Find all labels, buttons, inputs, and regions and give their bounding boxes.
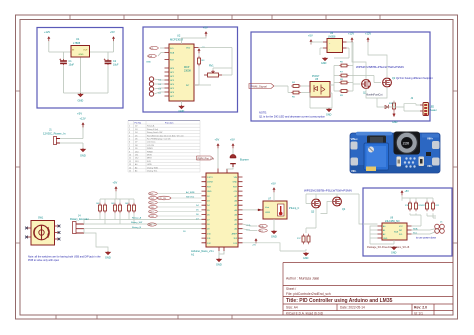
svg-text:GND: GND	[78, 99, 84, 103]
rotary encoder right pins with no-connect	[55, 226, 60, 239]
svg-text:LCD_RS: LCD_RS	[158, 198, 167, 200]
svg-text:Package_SO-PowerIntegrations_S: Package_SO-PowerIntegrations_SO-c8	[367, 246, 410, 249]
power flag +5V left of U6	[310, 39, 313, 44]
frame row ticks left	[16, 91, 21, 243]
svg-text:5: 5	[129, 139, 130, 141]
wire bus right of resistors	[349, 66, 381, 92]
resistor R19	[409, 201, 412, 211]
module trim pot	[364, 143, 389, 170]
svg-text:+5V: +5V	[271, 182, 276, 186]
resistor R16	[133, 203, 136, 213]
svg-text:Rotary_A: Rotary_A	[132, 217, 142, 220]
svg-text:D11: D11	[135, 155, 138, 157]
svg-text:Buzzer: Buzzer	[240, 158, 249, 162]
svg-text:Rotary_SW: Rotary_SW	[131, 221, 143, 224]
wires pot to rails	[213, 68, 232, 75]
wire opto emitter to gnd	[310, 93, 332, 109]
wire LM35 to gnd	[273, 219, 275, 230]
svg-text:GND: GND	[179, 109, 185, 113]
svg-text:VIN: VIN	[234, 177, 238, 179]
wire VDD right	[199, 47, 223, 49]
capacitor C2	[104, 59, 112, 66]
resistor R22	[432, 201, 435, 211]
IC U2 left pins	[165, 48, 170, 96]
svg-text:GND: GND	[79, 54, 84, 56]
svg-text:GND: GND	[105, 256, 111, 260]
svg-text:+5V: +5V	[230, 138, 235, 142]
mosfet Q4	[333, 197, 342, 206]
wire rotary data line SW	[84, 223, 202, 225]
svg-text:Sheet /: Sheet /	[286, 287, 296, 291]
svg-text:Id: 1/1: Id: 1/1	[414, 311, 423, 315]
optocoupler U5	[310, 75, 330, 97]
svg-text:D5: D5	[135, 135, 137, 137]
svg-text:D8: D8	[135, 145, 137, 147]
ground under U6	[323, 57, 328, 61]
mosfet Q1	[362, 80, 371, 89]
potentiometer RV1 contrast	[204, 70, 222, 77]
svg-text:D0/RX: D0/RX	[207, 182, 214, 184]
resistor R18	[307, 234, 310, 244]
module pad VIN+	[351, 142, 358, 150]
svg-text:D1/TX: D1/TX	[207, 177, 213, 179]
svg-text:GND: GND	[216, 263, 222, 267]
svg-text:7: 7	[129, 145, 130, 147]
svg-text:L7805: L7805	[73, 41, 81, 45]
svg-text:+5V: +5V	[203, 26, 208, 30]
wire buzzer to MCU	[227, 167, 233, 169]
svg-text:SW1: SW1	[38, 217, 44, 220]
svg-text:LCDR: LCDR	[149, 216, 155, 218]
svg-text:LM358: LM358	[328, 36, 336, 39]
svg-text:VCC: VCC	[399, 226, 404, 228]
svg-text:Q2 For having different footp: Q2 For having different footprint	[396, 76, 433, 80]
wire rotary data line A	[84, 219, 202, 221]
svg-text:GND: GND	[392, 121, 398, 124]
capacitor C1	[59, 59, 67, 66]
buzzer BZ1	[230, 155, 236, 167]
wire MCU bottom to gnd	[219, 251, 224, 258]
svg-text:1: 1	[129, 126, 130, 128]
svg-text:MISO: MISO	[147, 158, 152, 160]
resistor R3 pullup	[198, 56, 201, 66]
svg-text:13: 13	[129, 164, 131, 166]
net label SDA (box2)	[148, 54, 157, 57]
svg-text:AREF: AREF	[232, 232, 238, 235]
wires mosfet drains rail	[306, 194, 359, 233]
resistor R14	[119, 203, 122, 213]
LM35 temperature sensor U7	[263, 201, 287, 219]
svg-text:Fan PWM/Display / LCD D6: Fan PWM/Display / LCD D6	[147, 139, 170, 141]
svg-text:WPS2N/2SB7B+PSLLW7SW+PSMN: WPS2N/2SB7B+PSLLW7SW+PSMN	[304, 189, 352, 193]
svg-text:6: 6	[129, 142, 130, 144]
ground at power-in	[81, 148, 86, 152]
wires MCU to SDA/SCL labels	[243, 224, 258, 231]
power flag +5V above MCU left	[217, 143, 220, 148]
svg-text:GND: GND	[303, 257, 309, 260]
net label oval on SW line	[148, 223, 157, 227]
resistor R11	[99, 203, 102, 213]
svg-text:+5V: +5V	[113, 181, 118, 185]
MCU left pins	[202, 177, 207, 243]
svg-text:15: 15	[129, 171, 131, 173]
wire MCU A0 to LM35	[243, 209, 259, 211]
wires to J2	[384, 101, 420, 111]
svg-text:VIN+/-: VIN+/-	[351, 137, 359, 141]
svg-text:D4: D4	[135, 132, 137, 134]
svg-text:Rotary_Encoder: Rotary_Encoder	[70, 217, 89, 221]
svg-text:12: 12	[129, 161, 131, 163]
ground under mosfet resistors	[304, 252, 309, 256]
resistor R20	[415, 201, 418, 211]
wire mid rail to box4	[359, 194, 363, 224]
wire SCL to pin	[160, 47, 165, 49]
resistor R10 vertical	[393, 101, 396, 111]
svg-text:LCD4: LCD4	[149, 198, 155, 200]
IC U2 pin name texts	[170, 48, 191, 99]
svg-text:Rev: 2.0: Rev: 2.0	[414, 306, 427, 310]
wires net labels to MCU	[157, 194, 201, 217]
ground under LM35	[272, 230, 277, 234]
wire from mosfet area to MCU D13	[243, 243, 307, 251]
wire bus left of resistors	[330, 66, 339, 92]
wires U9 left to gnd bus	[363, 224, 394, 244]
ground GND box2	[179, 105, 184, 109]
svg-text:A2: A2	[383, 233, 385, 236]
svg-text:Heater: Heater	[430, 109, 437, 112]
sheet box: power supply regulator section	[37, 28, 123, 109]
svg-text:PWM2: PWM2	[147, 151, 153, 153]
svg-text:PWM_Rist_Out: PWM_Rist_Out	[198, 157, 215, 160]
svg-text:+5V: +5V	[308, 34, 313, 38]
power flag +12V above Q1	[351, 37, 354, 42]
power flag +5V small below	[255, 238, 258, 243]
svg-text:+12V: +12V	[80, 117, 86, 121]
svg-text:SCL: SCL	[399, 234, 403, 236]
power flag +5V above LM35	[273, 187, 276, 192]
resistor R21	[426, 201, 429, 211]
svg-text:Author : Murtaza Jalal: Author : Murtaza Jalal	[286, 277, 319, 281]
frame column ticks bottom	[56, 315, 232, 319]
svg-text:A1: A1	[383, 229, 385, 232]
svg-text:A1: A1	[191, 253, 195, 257]
svg-text:GND: GND	[321, 62, 327, 65]
svg-text:SW: SW	[149, 225, 152, 227]
svg-text:LED1: LED1	[149, 194, 155, 196]
diode D1	[385, 105, 389, 109]
svg-text:220: 220	[403, 141, 410, 146]
svg-text:MOSI: MOSI	[147, 155, 152, 157]
svg-text:PWM1: PWM1	[147, 148, 153, 150]
svg-text:U2: U2	[177, 34, 181, 38]
svg-text:D12: D12	[135, 158, 138, 160]
svg-text:KiCad E.D.A. kicad (6.0.6): KiCad E.D.A. kicad (6.0.6)	[286, 311, 323, 315]
svg-text:Display SDA: Display SDA	[147, 166, 158, 169]
wire rotary data line B	[84, 228, 202, 230]
resistor R13	[114, 203, 117, 213]
svg-text:D3: D3	[135, 129, 137, 131]
module smd resistors	[397, 157, 402, 167]
svg-text:D9: D9	[135, 148, 137, 150]
svg-text:24LC256_SO: 24LC256_SO	[385, 220, 400, 223]
svg-text:10: 10	[129, 155, 131, 157]
svg-text:+12V: +12V	[365, 32, 371, 36]
net label D9	[149, 210, 158, 214]
wire U2 VDD to +5V	[182, 36, 207, 44]
module pad VOUT+	[432, 141, 440, 149]
resistor R7	[339, 74, 349, 77]
svg-text:14: 14	[129, 167, 131, 169]
sheet box: PWM driver / mosfet section	[251, 32, 430, 121]
wire R3 down and to contrast pot	[194, 48, 232, 86]
sheet box: LCD I2C expander section	[143, 27, 238, 112]
svg-text:SW_Rist: SW_Rist	[186, 195, 195, 198]
IC U9 eeprom	[382, 223, 407, 240]
power flag +5V box4	[401, 190, 404, 195]
wires J3 to U2 pins	[154, 79, 165, 94]
regulator U1 L7805	[71, 46, 90, 58]
svg-text:OUT: OUT	[83, 50, 88, 52]
module input connector black	[367, 136, 386, 145]
pin function table	[128, 121, 200, 173]
svg-text:Pin No: Pin No	[135, 122, 142, 124]
module inductor ring	[399, 135, 415, 151]
svg-text:LM35: LM35	[265, 212, 271, 214]
svg-text:D6: D6	[135, 139, 137, 141]
resistor R5	[291, 91, 301, 94]
svg-text:LCD6: LCD6	[149, 207, 155, 209]
svg-text:#Temp_C: #Temp_C	[289, 207, 300, 210]
svg-text:D7: D7	[135, 142, 137, 144]
ground U9	[392, 246, 397, 250]
svg-text:2: 2	[129, 129, 130, 131]
svg-text:GND: GND	[271, 235, 277, 239]
svg-text:PCB to solve only with open: PCB to solve only with open	[28, 259, 60, 262]
svg-text:Rotary B (int): Rotary B (int)	[147, 128, 159, 131]
svg-text:11: 11	[129, 158, 131, 160]
svg-text:SDA: SDA	[413, 228, 418, 231]
resistor R9	[339, 90, 349, 93]
power flag +5V above pullup resistors	[115, 186, 118, 191]
svg-text:GND: GND	[233, 182, 238, 184]
resistor R8	[339, 81, 349, 84]
svg-text:+5V: +5V	[110, 30, 115, 34]
svg-text:SDA: SDA	[148, 55, 153, 58]
net label D8	[149, 205, 158, 209]
rotary encoder left pins with no-connect	[27, 228, 32, 237]
wire to gnd left area	[84, 233, 108, 251]
sheet box: I2C EEPROM section	[363, 188, 452, 256]
wire vcc down to MCU top	[218, 148, 233, 168]
svg-text:LCD Data: LCD Data	[147, 141, 156, 144]
wire U6 right feedback	[334, 42, 353, 66]
IC U2 MCP23008	[169, 44, 194, 101]
title block outline	[283, 263, 453, 316]
svg-text:VDD: VDD	[186, 48, 191, 50]
svg-text:WPS2N/2SB7B+PSLLW7SW+PSMN: WPS2N/2SB7B+PSLLW7SW+PSMN	[356, 65, 404, 69]
svg-text:9: 9	[129, 151, 130, 153]
mosfet Q2	[383, 78, 392, 87]
MCU pin labels left	[207, 177, 214, 245]
svg-text:GND: GND	[146, 62, 151, 64]
svg-text:8: 8	[129, 148, 130, 150]
net label SDA (mcu)	[259, 224, 268, 228]
svg-text:LCD RS: LCD RS	[147, 145, 155, 147]
power flag +5V (near R3)	[198, 48, 201, 53]
wire vcc to resistor rail	[402, 195, 433, 200]
svg-text:D13: D13	[135, 161, 138, 163]
svg-text:A4_SWB: A4_SWB	[186, 191, 195, 194]
wire bottom of IC to gnd	[181, 101, 183, 105]
power flag +5V (box1 right)	[112, 36, 115, 41]
net label column to MCU pins: D5	[149, 192, 158, 196]
module pad VIN-	[351, 158, 359, 166]
power flag +5V (box2 top)	[205, 31, 208, 36]
wire SDA to pin	[158, 53, 165, 57]
svg-text:Arduino_Nano_v3.x: Arduino_Nano_v3.x	[191, 249, 214, 253]
svg-text:+5V: +5V	[215, 138, 220, 142]
power flag +12V	[47, 36, 50, 41]
svg-text:to use power down: to use power down	[416, 237, 437, 240]
connector J2 heater	[423, 103, 429, 116]
svg-text:SDA: SDA	[259, 225, 264, 228]
svg-text:PWM_Signal: PWM_Signal	[251, 85, 268, 89]
IC U9 right pins	[407, 226, 412, 234]
svg-text:SDA: SDA	[170, 52, 175, 55]
resistor R12	[104, 203, 107, 213]
IC U2 right pins	[194, 48, 199, 86]
net label SCL (box2)	[150, 46, 159, 49]
MCU pin labels right	[232, 177, 238, 245]
svg-text:A5: A5	[135, 170, 137, 173]
connector J3 circular pins	[149, 77, 153, 96]
ground left area	[106, 251, 111, 255]
resistor R6	[339, 64, 349, 67]
svg-text:A0: A0	[135, 163, 137, 166]
power flag +5V above MCU right	[232, 143, 235, 148]
power flag +12V at power-in	[82, 122, 85, 127]
svg-text:VIN+: VIN+	[427, 137, 433, 141]
svg-text:A4: A4	[135, 166, 137, 169]
resistor R15	[128, 203, 131, 213]
rotary encoder SW1	[31, 221, 55, 246]
svg-text:Q1 is for the DIG LED and decr: Q1 is for the DIG LED and decrease curre…	[259, 115, 325, 119]
module pad VOUT-	[432, 158, 440, 166]
wire: cap drops	[64, 52, 109, 93]
svg-text:VIN-: VIN-	[427, 164, 432, 168]
resistor R4	[291, 85, 301, 88]
svg-text:GND: GND	[383, 238, 388, 240]
svg-text:U1: U1	[76, 37, 80, 41]
ground arrow under R10	[393, 111, 395, 116]
svg-text:Rotary A: Rotary A	[147, 125, 155, 128]
connector J5 circular pins	[435, 224, 445, 233]
svg-text:+12V: +12V	[44, 30, 50, 34]
ground under MCU	[217, 258, 222, 262]
svg-text:10uF: 10uF	[113, 64, 119, 67]
hierarchical label PWM_Signal	[249, 84, 274, 89]
svg-text:23008: 23008	[184, 70, 191, 73]
svg-text:GND: GND	[391, 252, 397, 255]
svg-text:4: 4	[129, 135, 130, 137]
svg-text:12VDC_Power_In: 12VDC_Power_In	[43, 132, 66, 136]
wire: power in to rails	[60, 124, 83, 148]
svg-text:Size: A4: Size: A4	[286, 306, 298, 310]
svg-text:A0: A0	[383, 225, 385, 228]
svg-text:RV1: RV1	[209, 65, 214, 68]
wire vcc rail to resistor tops	[100, 191, 134, 202]
wire: top rail box1	[49, 41, 114, 52]
wire resistor bottoms to data lines	[100, 213, 134, 224]
wires U9 right	[410, 213, 436, 234]
svg-text:LCD5: LCD5	[149, 203, 155, 205]
svg-text:Rotary Switch SW: Rotary Switch SW	[147, 131, 162, 134]
svg-text:NOTE:: NOTE:	[259, 111, 267, 115]
svg-text:GND: GND	[326, 114, 332, 117]
svg-text:Red LED/LCD data D4 (LCD 4bit): Red LED/LCD data D4 (LCD 4bit) / D5 LCD	[147, 134, 184, 137]
net label SCL (mcu)	[259, 229, 268, 233]
mosfet Q3	[312, 199, 321, 208]
svg-text:Rotary_B: Rotary_B	[132, 226, 142, 229]
ground GND box1	[78, 93, 83, 97]
wire U2 INT right	[198, 84, 201, 86]
hierarchical label PWM_Rist_Out	[197, 156, 215, 160]
svg-text:+5V: +5V	[77, 112, 82, 116]
svg-text:File: pidControler2ndEnd_sch: File: pidControler2ndEnd_sch	[286, 292, 331, 296]
MCU top pins	[218, 169, 227, 174]
svg-text:Vout: Vout	[265, 206, 269, 209]
ground under opto	[327, 108, 332, 112]
frame column ticks top	[70, 15, 380, 20]
svg-text:10uF: 10uF	[69, 64, 75, 67]
wire label to resistors	[275, 85, 289, 87]
svg-text:VIN-: VIN-	[351, 169, 356, 173]
svg-text:D10: D10	[135, 151, 138, 153]
MCU bottom pins	[219, 247, 224, 251]
MCU right pins	[238, 177, 243, 243]
net label D7	[149, 201, 158, 205]
wire vcc to LM35	[273, 192, 275, 201]
svg-text:LM35: LM35	[147, 164, 152, 166]
IC U9 left pins	[378, 226, 383, 238]
svg-text:GND: GND	[80, 154, 86, 158]
svg-text:LCD7: LCD7	[149, 212, 155, 214]
power flag +12V above Q2	[367, 37, 370, 42]
photo: MT3608 boost converter module PCB	[350, 132, 440, 174]
frame row ticks right	[453, 91, 458, 243]
IC U6 small regulator top	[323, 32, 347, 53]
svg-text:Function: Function	[165, 121, 174, 124]
wires resistors to optocoupler	[288, 86, 310, 93]
svg-text:+5V: +5V	[405, 190, 410, 193]
svg-text:D2: D2	[135, 126, 137, 128]
svg-text:PC817: PC817	[312, 75, 320, 78]
resistor R17	[302, 234, 305, 244]
net label D10	[149, 214, 158, 218]
wire vcc rails to mosfets	[352, 42, 387, 107]
svg-text:+5V: +5V	[252, 245, 256, 247]
svg-text:Title: PID Controller using Ar: Title: PID Controller using Arduino and …	[286, 298, 393, 304]
wire +5V to U6	[311, 42, 323, 55]
svg-text:GND: GND	[207, 191, 212, 193]
svg-text:MosfetFootCut: MosfetFootCut	[366, 94, 383, 97]
svg-text:Date: 2022-05-14: Date: 2022-05-14	[340, 306, 365, 310]
net label extra wide	[157, 196, 171, 200]
module inductor base	[394, 132, 421, 155]
svg-text:Display SCL: Display SCL	[147, 171, 157, 173]
svg-text:3: 3	[129, 132, 130, 134]
MCU U8 Arduino Nano	[206, 173, 238, 247]
